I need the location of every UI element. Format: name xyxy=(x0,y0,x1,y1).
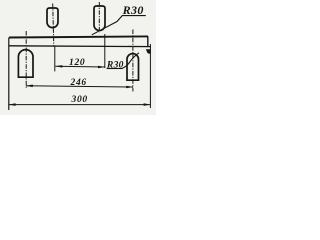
svg-text:R30: R30 xyxy=(106,59,124,70)
svg-text:R30: R30 xyxy=(122,3,144,17)
svg-text:246: 246 xyxy=(70,78,87,88)
svg-text:120: 120 xyxy=(69,58,85,68)
svg-text:300: 300 xyxy=(71,95,88,105)
